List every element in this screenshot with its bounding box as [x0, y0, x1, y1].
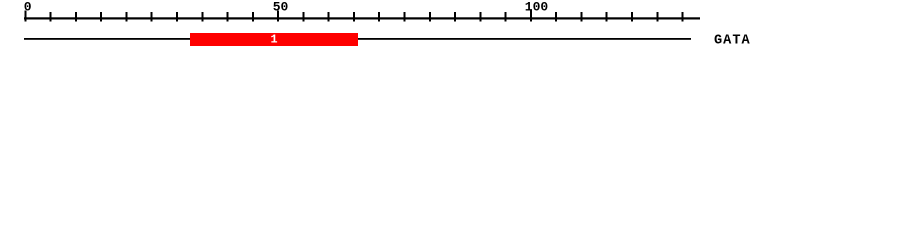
ruler tick 60 (minor) [328, 12, 330, 22]
ruler tick 25 (minor) [151, 12, 153, 22]
svg-text:50: 50 [273, 0, 289, 14]
ruler tick 30 (minor) [176, 12, 178, 22]
sequence baseline [24, 38, 691, 40]
ruler tick 130 (minor) [682, 12, 684, 22]
ruler tick 70 (minor) [378, 12, 380, 22]
ruler tick 125 (minor) [656, 12, 658, 22]
ruler tick 5 (minor) [50, 12, 52, 22]
ruler tick 35 (minor) [201, 12, 203, 22]
svg-text:1: 1 [270, 33, 277, 47]
svg-text:100: 100 [525, 0, 549, 14]
ruler tick 40 (minor) [227, 12, 229, 22]
ruler tick 15 (minor) [100, 12, 102, 22]
ruler tick 55 (minor) [302, 12, 304, 22]
ruler tick 50 (major) [277, 10, 279, 21]
ruler tick 75 (minor) [404, 12, 406, 22]
feature box (red) [190, 33, 358, 46]
ruler tick 10 (minor) [75, 12, 77, 22]
ruler tick 115 (minor) [606, 12, 608, 22]
svg-text:0: 0 [24, 0, 32, 14]
ruler tick 90 (minor) [479, 12, 481, 22]
ruler axis line [24, 17, 700, 19]
ruler tick 45 (minor) [252, 12, 254, 22]
ruler tick 105 (minor) [555, 12, 557, 22]
ruler tick 95 (minor) [505, 12, 507, 22]
ruler tick 20 (minor) [125, 12, 127, 22]
ruler tick 80 (minor) [429, 12, 431, 22]
ruler tick 85 (minor) [454, 12, 456, 22]
svg-text:GATA: GATA [714, 34, 751, 49]
ruler tick 110 (minor) [580, 12, 582, 22]
ruler tick 0 (major) [24, 10, 26, 21]
ruler tick 120 (minor) [631, 12, 633, 22]
ruler tick 100 (major) [530, 10, 532, 21]
ruler tick 65 (minor) [353, 12, 355, 22]
